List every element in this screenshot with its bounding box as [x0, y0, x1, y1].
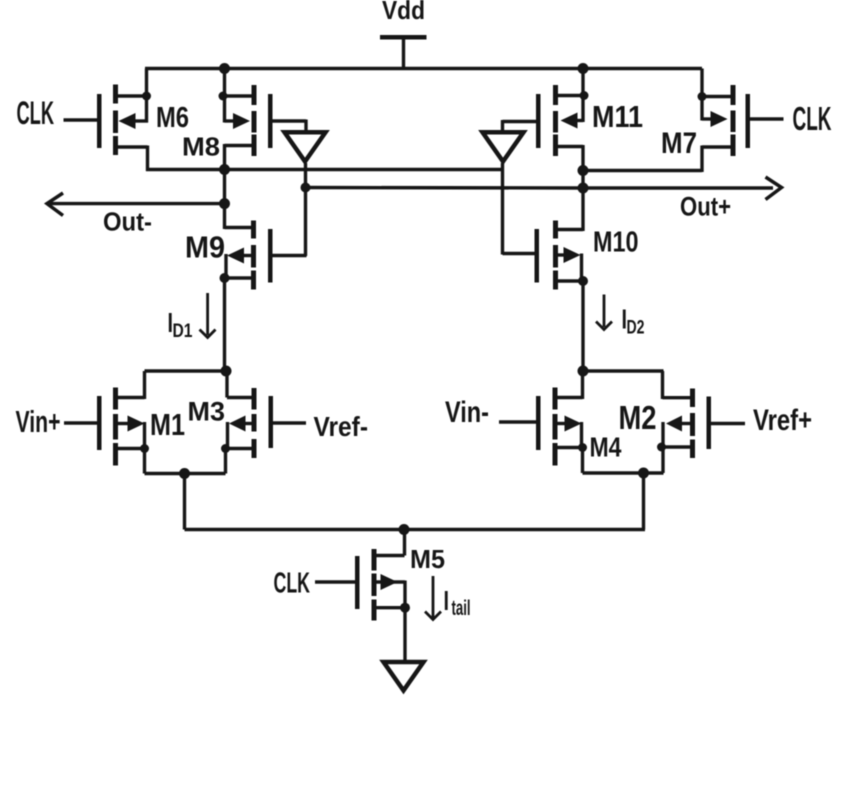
- svg-text:CLK: CLK: [793, 100, 832, 137]
- svg-text:M10: M10: [593, 227, 639, 259]
- wire top rail: [145, 67, 702, 70]
- svg-text:D1: D1: [173, 321, 193, 342]
- node tail junction: [399, 524, 410, 535]
- node left pair top junction: [221, 366, 232, 377]
- svg-text:M7: M7: [661, 127, 697, 160]
- svg-text:Vin+: Vin+: [16, 405, 61, 439]
- svg-text:M2: M2: [619, 399, 657, 436]
- transistor M5: [315, 530, 410, 662]
- transistor M6: [64, 69, 152, 172]
- svg-text:Vref-: Vref-: [314, 411, 369, 442]
- node right pair tail junction: [638, 468, 649, 479]
- Vdd supply bar: [380, 35, 427, 69]
- svg-text:M5: M5: [410, 544, 445, 574]
- wire left pair top rail: [145, 369, 228, 372]
- node Out- junction dot: [219, 198, 230, 209]
- label ID2: [622, 304, 645, 339]
- transistor M1: [64, 371, 149, 474]
- node right pair top junction: [578, 366, 589, 377]
- wire Out- column down to M9: [223, 170, 226, 230]
- svg-text:CLK: CLK: [17, 95, 55, 131]
- node junction M11 source / Out+ column: [578, 165, 589, 176]
- svg-text:Out-: Out-: [103, 209, 152, 237]
- ground-style triangle under M8 gate: [285, 132, 326, 161]
- wire Out+ column down to M10: [581, 171, 584, 232]
- wire Out+ net horizontal (sources of M11/M7): [583, 169, 702, 172]
- current arrow Itail: [425, 576, 441, 620]
- label ID1: [168, 307, 193, 342]
- ground symbol: [384, 662, 424, 691]
- svg-text:M6: M6: [156, 102, 189, 134]
- transistor M2: [657, 371, 745, 473]
- wire right gate column (triangle apex down to M10 gate): [501, 163, 504, 255]
- wire Out- net horizontal (sources of M6/M8 to M11-M10 gate column): [146, 168, 503, 171]
- wire Out+ arrow line: [583, 177, 782, 200]
- node gate-column corner dot: [301, 183, 311, 193]
- svg-text:D2: D2: [627, 318, 645, 339]
- wire bottom tail line: [185, 528, 646, 531]
- transistor M8: [219, 69, 307, 172]
- wire cross-coupling line M8/M9 gates to Out+ column: [306, 186, 584, 190]
- node junction M8 source / Out- column: [219, 164, 230, 175]
- svg-text:M11: M11: [592, 99, 643, 134]
- current arrow ID1: [200, 293, 216, 338]
- wire right pair bottom rail: [583, 471, 664, 474]
- svg-text:Vin-: Vin-: [445, 396, 489, 429]
- wire left pair bottom rail: [145, 472, 226, 475]
- svg-text:tail: tail: [452, 597, 471, 620]
- transistor M4: [499, 371, 587, 473]
- ground-style triangle under M11 gate: [483, 132, 524, 161]
- transistor M11: [503, 69, 589, 173]
- node rail-M8 junction: [219, 63, 230, 74]
- svg-text:M4: M4: [590, 432, 622, 463]
- svg-text:I: I: [444, 585, 450, 616]
- wire right tail down: [642, 473, 645, 530]
- svg-text:M9: M9: [185, 230, 225, 265]
- node Out+ junction dot: [578, 183, 589, 194]
- transistor M7: [698, 69, 784, 173]
- current arrow ID2: [596, 295, 612, 330]
- wire left gate column (triangle apex down to M9 gate): [304, 163, 307, 256]
- node left pair tail junction: [179, 468, 190, 479]
- svg-text:Vdd: Vdd: [382, 0, 425, 25]
- label Itail: [444, 585, 471, 620]
- svg-text:Vref+: Vref+: [753, 404, 812, 437]
- wire right pair top rail: [583, 369, 664, 372]
- transistor M3: [221, 371, 306, 474]
- transistor M9: [220, 221, 307, 372]
- svg-text:M3: M3: [188, 397, 226, 427]
- svg-text:Out+: Out+: [680, 192, 731, 222]
- node rail-M11 junction: [578, 63, 589, 74]
- wire left tail down: [183, 474, 186, 530]
- svg-text:M1: M1: [150, 407, 185, 442]
- transistor M10: [503, 221, 589, 372]
- wire Out- arrow line: [47, 193, 225, 216]
- svg-text:M8: M8: [182, 132, 220, 162]
- svg-text:CLK: CLK: [274, 568, 311, 600]
